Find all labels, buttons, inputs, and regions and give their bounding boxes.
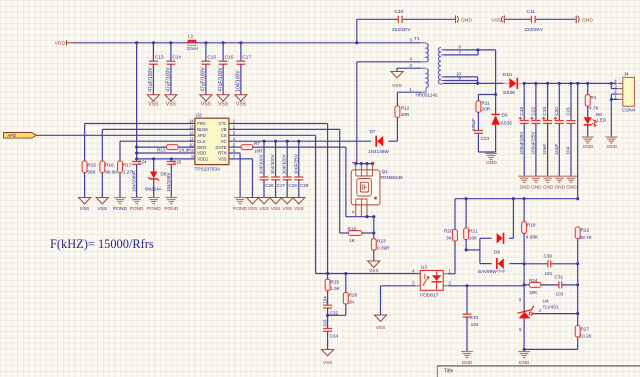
svg-text:C27: C27 (277, 183, 286, 188)
svg-text:VSS: VSS (80, 206, 90, 212)
svg-text:C13: C13 (155, 54, 164, 59)
svg-text:7: 7 (459, 50, 462, 55)
svg-text:1N4148W: 1N4148W (368, 149, 389, 154)
svg-text:47uF/100V: 47uF/100V (148, 67, 154, 92)
svg-text:3: 3 (614, 84, 617, 89)
svg-text:104: 104 (471, 322, 479, 327)
svg-text:10uF: 10uF (542, 144, 547, 155)
svg-text:GND: GND (531, 185, 542, 190)
svg-text:FDN86246: FDN86246 (381, 175, 404, 180)
svg-text:D0: D0 (596, 112, 602, 117)
svg-text:CLS: CLS (197, 139, 205, 144)
svg-text:U4: U4 (543, 298, 549, 303)
svg-text:C20: C20 (554, 107, 559, 116)
svg-text:C11: C11 (527, 9, 536, 15)
svg-text:3: 3 (410, 38, 413, 43)
svg-text:20R: 20R (482, 107, 491, 112)
svg-text:GND: GND (486, 160, 497, 166)
svg-text:F(kHZ)= 15000/Rfrs: F(kHZ)= 15000/Rfrs (50, 237, 154, 251)
svg-text:R1: R1 (591, 95, 597, 100)
svg-text:R12: R12 (401, 105, 410, 110)
svg-text:VSS: VSS (97, 206, 107, 212)
svg-text:VSS: VSS (166, 102, 177, 108)
svg-text:R25: R25 (330, 279, 339, 284)
svg-text:R24: R24 (529, 278, 538, 283)
svg-text:C34: C34 (330, 333, 339, 338)
svg-text:VSS: VSS (323, 360, 333, 366)
svg-text:GND: GND (543, 185, 554, 190)
svg-text:4.7K: 4.7K (589, 105, 600, 110)
svg-text:SMZ24A: SMZ24A (145, 187, 162, 192)
svg-text:C33: C33 (470, 315, 479, 320)
svg-text:C15: C15 (207, 54, 216, 59)
svg-text:R17: R17 (123, 162, 132, 167)
svg-text:POND: POND (113, 206, 127, 212)
svg-text:VSS: VSS (392, 83, 402, 89)
svg-text:R19: R19 (348, 227, 357, 232)
svg-text:101: 101 (545, 271, 553, 276)
svg-text:D6: D6 (502, 113, 508, 118)
svg-text:HR051142: HR051142 (416, 93, 438, 98)
svg-text:VSS: VSS (236, 102, 247, 108)
svg-text:10.2K: 10.2K (580, 334, 593, 339)
svg-text:VSS: VSS (248, 206, 258, 212)
svg-text:10R: 10R (254, 149, 263, 154)
svg-text:L1: L1 (188, 33, 194, 39)
svg-text:APD: APD (197, 133, 206, 138)
svg-text:VSS: VSS (218, 102, 229, 108)
svg-text:103: 103 (556, 291, 564, 296)
svg-text:D7: D7 (370, 129, 376, 134)
svg-text:R13: R13 (157, 148, 166, 153)
svg-text:GATE: GATE (216, 145, 227, 150)
svg-text:C18: C18 (519, 107, 524, 116)
svg-text:D10: D10 (503, 72, 512, 78)
svg-text:R7: R7 (254, 141, 260, 146)
svg-text:CTL: CTL (219, 121, 228, 126)
svg-text:GND: GND (461, 17, 472, 23)
svg-text:GND: GND (582, 17, 593, 23)
svg-text:VSS: VSS (376, 325, 386, 331)
svg-text:VDD1: VDD1 (197, 157, 209, 162)
svg-text:47uF/100V: 47uF/100V (166, 67, 172, 92)
svg-text:BAV99W-7-F: BAV99W-7-F (478, 269, 505, 274)
svg-text:SS36: SS36 (503, 90, 515, 96)
svg-text:POND: POND (164, 206, 178, 212)
svg-text:104/100V: 104/100V (259, 153, 264, 174)
svg-text:1: 1 (449, 268, 452, 273)
svg-text:APD: APD (8, 133, 17, 138)
svg-text:222/2KV: 222/2KV (525, 27, 544, 33)
svg-text:4: 4 (539, 308, 542, 313)
svg-text:3: 3 (412, 281, 415, 286)
svg-text:0.39R: 0.39R (377, 246, 390, 251)
svg-text:VDD: VDD (197, 151, 206, 156)
svg-text:FRS: FRS (197, 121, 206, 126)
svg-text:5: 5 (519, 327, 522, 332)
svg-text:C16: C16 (225, 54, 234, 59)
svg-text:C30: C30 (544, 254, 553, 259)
svg-text:2: 2 (614, 89, 617, 94)
svg-text:R23: R23 (377, 238, 386, 243)
svg-text:80.6K: 80.6K (105, 169, 118, 174)
svg-text:VC: VC (221, 139, 227, 144)
svg-text:C21: C21 (566, 107, 571, 116)
svg-text:2K: 2K (349, 299, 356, 304)
svg-text:59K: 59K (87, 169, 96, 174)
svg-text:1.5K: 1.5K (330, 286, 341, 291)
svg-text:Title: Title (444, 369, 453, 375)
svg-text:24.9K: 24.9K (179, 148, 192, 153)
svg-text:R26: R26 (349, 293, 358, 298)
svg-text:BLNK: BLNK (197, 127, 208, 132)
svg-text:TPS23753A: TPS23753A (195, 166, 222, 172)
svg-text:10R: 10R (401, 112, 410, 117)
svg-text:104: 104 (566, 146, 571, 154)
svg-text:VSS: VSS (271, 206, 281, 212)
svg-text:10uF: 10uF (554, 144, 559, 155)
svg-text:CON4: CON4 (622, 108, 636, 114)
svg-text:VB: VB (221, 127, 227, 132)
svg-text:CS: CS (221, 133, 227, 138)
svg-text:47uF/100V: 47uF/100V (201, 67, 207, 92)
svg-text:C23: C23 (481, 136, 490, 141)
svg-text:10K: 10K (469, 236, 478, 241)
svg-text:VSS: VSS (148, 102, 159, 108)
svg-text:C24: C24 (138, 159, 147, 164)
svg-text:C22: C22 (531, 107, 536, 116)
svg-text:1K: 1K (349, 238, 356, 243)
svg-text:22uH: 22uH (187, 46, 199, 52)
svg-text:RTN: RTN (218, 151, 227, 156)
svg-text:100uF/25V: 100uF/25V (519, 131, 524, 155)
svg-text:POND: POND (147, 206, 161, 212)
svg-text:R18: R18 (527, 222, 536, 227)
svg-text:R20: R20 (444, 228, 453, 233)
svg-text:104: 104 (322, 296, 327, 304)
svg-text:R11: R11 (482, 101, 491, 106)
svg-text:R27: R27 (581, 326, 590, 331)
svg-text:C28: C28 (288, 183, 297, 188)
svg-text:VSS: VSS (294, 206, 304, 212)
svg-text:R22: R22 (581, 227, 590, 232)
svg-text:3: 3 (519, 297, 522, 302)
svg-text:VDD: VDD (55, 41, 66, 47)
svg-text:10K: 10K (529, 290, 538, 295)
svg-text:680pF: 680pF (471, 118, 476, 131)
svg-text:4: 4 (412, 268, 415, 273)
svg-text:C19: C19 (542, 107, 547, 116)
svg-text:C14: C14 (172, 54, 181, 59)
svg-text:104/100V: 104/100V (131, 173, 136, 192)
svg-text:GND: GND (583, 144, 594, 150)
svg-text:T1: T1 (414, 36, 420, 42)
svg-text:4.99K: 4.99K (526, 234, 539, 239)
svg-text:POND: POND (233, 206, 247, 212)
svg-text:VSS: VSS (491, 17, 502, 23)
svg-text:104/100V: 104/100V (236, 70, 242, 92)
svg-text:C10: C10 (395, 9, 404, 15)
svg-text:3K: 3K (446, 236, 453, 241)
svg-text:222/2KV: 222/2KV (392, 27, 411, 33)
svg-text:GND: GND (520, 185, 531, 190)
svg-text:104/100V: 104/100V (166, 173, 171, 192)
svg-text:10uF/25V: 10uF/25V (293, 153, 298, 174)
svg-text:C25: C25 (173, 159, 182, 164)
svg-text:2: 2 (410, 63, 413, 68)
svg-text:R15: R15 (87, 162, 96, 167)
svg-text:104/100V: 104/100V (270, 153, 275, 174)
svg-text:VSS: VSS (259, 206, 269, 212)
svg-text:88.7K: 88.7K (580, 235, 593, 240)
svg-text:U2: U2 (196, 113, 202, 119)
svg-text:4: 4 (410, 57, 413, 62)
svg-text:GND: GND (606, 144, 617, 150)
svg-text:1: 1 (614, 94, 617, 99)
svg-text:Q1: Q1 (382, 169, 389, 174)
svg-text:C17: C17 (242, 54, 251, 59)
svg-text:D9: D9 (494, 250, 500, 255)
svg-text:SS36: SS36 (501, 121, 513, 126)
svg-text:LED: LED (597, 118, 607, 123)
svg-text:GND: GND (566, 185, 577, 190)
svg-text:9: 9 (459, 75, 462, 80)
svg-text:VSS: VSS (282, 206, 292, 212)
svg-text:C31: C31 (555, 274, 564, 279)
svg-text:C29: C29 (300, 183, 309, 188)
svg-text:R16: R16 (105, 162, 114, 167)
svg-text:1: 1 (410, 87, 413, 92)
svg-text:C26: C26 (265, 183, 274, 188)
svg-text:47uF/100V: 47uF/100V (218, 67, 224, 92)
svg-text:POND: POND (130, 206, 144, 212)
svg-text:J4: J4 (624, 72, 629, 77)
svg-text:R21: R21 (469, 228, 478, 233)
svg-text:VSS: VSS (201, 102, 212, 108)
svg-text:2: 2 (449, 281, 452, 286)
svg-text:104/100V: 104/100V (282, 153, 287, 174)
svg-text:U3: U3 (421, 265, 427, 270)
svg-text:FOD817: FOD817 (420, 292, 438, 298)
svg-text:GND: GND (555, 185, 566, 190)
svg-text:100uF/25V: 100uF/25V (531, 131, 536, 155)
svg-text:TLV431: TLV431 (543, 305, 559, 310)
svg-text:DEN: DEN (197, 145, 206, 150)
svg-text:VSS: VSS (218, 157, 227, 162)
svg-text:VSS: VSS (369, 268, 379, 274)
svg-text:103: 103 (322, 319, 327, 327)
